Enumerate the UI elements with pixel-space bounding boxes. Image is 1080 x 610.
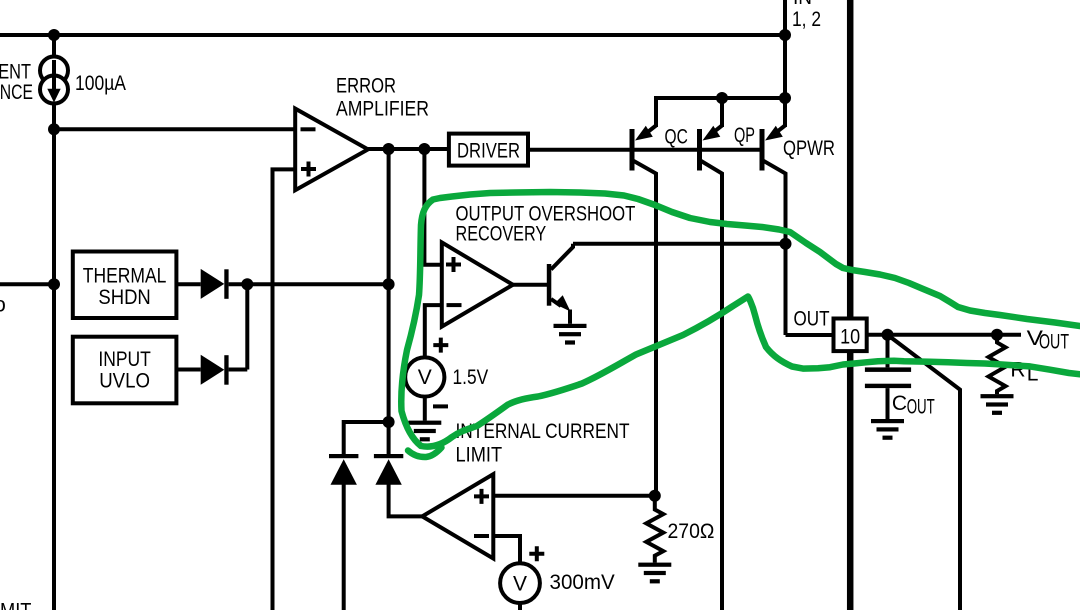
node QP emitter [716,92,728,104]
svg-text:RECOVERY: RECOVERY [456,223,547,246]
wire 300mV bottom [518,603,522,610]
wire diode to EA output column [229,282,389,286]
svg-text:V: V [513,572,527,595]
svg-text:OUT: OUT [794,308,830,331]
svg-text:1, 2: 1, 2 [792,8,821,31]
plus sign 1.5V [433,338,448,353]
svg-text:QPWR: QPWR [783,137,835,160]
resistor RL [989,335,1006,394]
wire U3 - input to 300mV [493,536,520,563]
wire clamp left down [342,484,346,610]
svg-text:DRIVER: DRIVER [457,140,520,163]
plus sign U2 [446,257,461,272]
wire EA out2 down to recovery + [424,149,441,265]
svg-text:300mV: 300mV [550,571,615,594]
transistor QC [630,98,657,496]
svg-text:OUT: OUT [907,396,935,419]
wire top rail [0,33,785,37]
svg-text:V: V [418,366,432,389]
plus sign U1 [301,162,316,177]
svg-text:ERROR: ERROR [336,75,396,98]
svg-text:QC: QC [665,126,688,149]
svg-text:UVLO: UVLO [99,370,150,393]
annotation green tick [408,448,442,458]
node EA out 2 [418,143,430,155]
wire thermal to diode [176,282,200,286]
ground 270 ohm [638,563,671,584]
wire U3 + input to 270 ohm [493,494,655,498]
svg-text:LIMIT: LIMIT [0,599,32,610]
svg-text:C: C [892,392,907,415]
svg-text:REFERENCE: REFERENCE [0,81,33,104]
plus sign 300mV [529,546,544,561]
node error-amp minus feed [48,123,60,135]
node thermal/uvlo join [241,278,253,290]
node RL tap [991,329,1003,341]
pin box 10 [834,319,867,352]
ground RL [981,394,1014,415]
svg-text:1.5V: 1.5V [453,366,489,389]
wire uvlo to diode [176,368,200,372]
input uvlo box [73,337,177,404]
svg-text:LIMIT: LIMIT [456,444,503,467]
transistor QPWR [760,98,786,335]
ground overshoot emitter [554,324,587,345]
op-amp U2 output overshoot recovery [442,242,513,326]
svg-text:o: o [0,294,6,317]
annotation green curve [401,192,1080,447]
source V 1.5V [405,357,444,396]
svg-text:THERMAL: THERMAL [83,265,167,288]
wire SD pin [0,282,54,286]
node COUT tap [882,329,894,341]
svg-text:270Ω: 270Ω [668,520,715,543]
svg-text:OUT: OUT [1039,331,1069,354]
plus sign U3 [474,489,489,504]
diode thermal [201,269,225,299]
svg-text:QP: QP [734,124,755,147]
wire EA out column down [387,149,391,454]
wire feedback diagonal [888,335,961,610]
driver box [449,134,528,166]
wire error amp output [368,147,449,151]
node QPWR emitter [779,92,791,104]
wire recovery minus to 1.5V [425,305,442,356]
thermal shutdown box [73,252,177,319]
wire diode to riser [229,368,248,372]
diode clamp left [329,454,358,458]
svg-text:100µA: 100µA [75,72,126,95]
resistor 270 ohm [646,496,663,563]
node EA out 1 [383,143,395,155]
wire to left clamp diode [344,422,389,454]
transistor QP [697,98,722,610]
wire driver to bases [528,148,760,152]
node SD junction [48,278,60,290]
op-amp U1 error amplifier [295,109,368,191]
ground COUT [871,419,904,440]
wire pin to VOUT [867,333,1021,337]
diode uvlo [201,355,225,385]
svg-text:INPUT: INPUT [98,348,151,371]
svg-text:10: 10 [840,326,860,349]
node IN rail junction [779,29,791,41]
minus sign U3 [474,534,489,538]
wire to error amp inverting input [54,127,296,131]
current source 100µA [40,57,68,104]
IC boundary thick line [847,0,854,610]
node clamp top [383,278,395,290]
source V 300mV [500,563,540,603]
node diode pair junction [383,416,395,428]
node QPWR collector tap [780,238,792,250]
diode clamp right [374,454,403,458]
transistor Q1 overshoot npn [513,244,573,324]
svg-text:SHDN: SHDN [98,286,150,309]
wire IN pin [783,0,787,98]
ground 1.5V [408,421,441,442]
minus sign U1 [301,127,316,131]
wire emitter rail [656,98,785,127]
capacitor COUT [865,367,911,372]
minus sign 1.5V [433,404,448,408]
node top-left junction [48,29,60,41]
wire 1.5V to ground [423,397,427,421]
svg-text:AMPLIFIER: AMPLIFIER [336,98,429,121]
node 270 ohm tap [649,490,661,502]
wire clamp right to comparator output [389,484,423,516]
wire Q1 collector to QPWR collector [573,242,786,246]
wire left column [52,35,56,610]
wire COUT stem [886,335,890,368]
wire error amp noninverting input [273,169,296,610]
wire OUT pin [786,333,834,337]
minus sign U2 [447,303,462,307]
svg-text:R: R [1010,359,1025,382]
op-amp U3 current limit (points left) [422,474,493,558]
wire uvlo riser [245,284,249,369]
